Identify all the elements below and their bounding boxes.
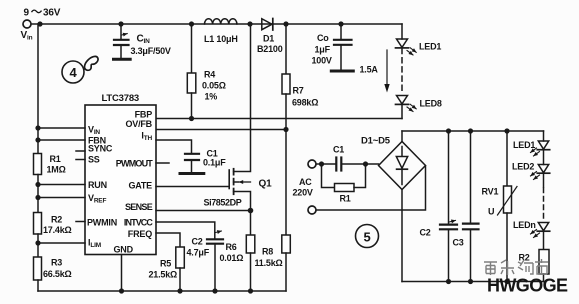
svg-text:SENSE: SENSE xyxy=(125,202,153,212)
svg-text:HWGOGE: HWGOGE xyxy=(487,276,568,296)
svg-text:Co: Co xyxy=(317,33,329,43)
svg-text:Vin: Vin xyxy=(21,30,33,42)
svg-text:AC: AC xyxy=(299,177,312,187)
wire dashed LED chain xyxy=(543,174,545,187)
svg-text:SS: SS xyxy=(88,155,100,165)
bridge rectifier D1~D5 xyxy=(379,142,426,190)
svg-text:R7: R7 xyxy=(293,86,304,96)
node Co tap xyxy=(338,21,343,26)
svg-text:B2100: B2100 xyxy=(257,44,283,54)
svg-text:LED1: LED1 xyxy=(513,140,535,150)
svg-text:9: 9 xyxy=(24,8,30,19)
svg-text:0.01Ω: 0.01Ω xyxy=(220,253,244,263)
wire bridge top to rail xyxy=(401,131,403,142)
wire left rail upper xyxy=(37,24,39,154)
pin PWMOUT stub xyxy=(156,162,169,164)
transistor Q1 MOSFET xyxy=(229,24,250,211)
svg-text:0.1μF: 0.1μF xyxy=(203,158,226,168)
svg-text:LTC3783: LTC3783 xyxy=(102,93,140,104)
wire FREQ net and resistor R5 xyxy=(156,233,184,291)
inductor L1 xyxy=(205,19,237,24)
wire bottom rail xyxy=(38,290,286,292)
pin SS stub xyxy=(76,159,85,161)
node Vin junction xyxy=(37,21,42,26)
svg-text:D1: D1 xyxy=(263,34,274,44)
diode D1 xyxy=(262,19,273,31)
resistor R2 (circuit5) xyxy=(539,250,549,282)
LED LED8 xyxy=(396,96,417,119)
circled 4 xyxy=(62,61,84,83)
svg-text:CIN: CIN xyxy=(137,34,151,46)
wire circuit5 bottom rail xyxy=(402,281,544,283)
wire AC bottom to bridge right xyxy=(316,166,425,210)
svg-text:5: 5 xyxy=(363,230,370,245)
capacitor C3 xyxy=(463,131,479,282)
node R4/L1 tap xyxy=(189,21,194,26)
svg-text:C2: C2 xyxy=(420,228,431,238)
svg-text:1.5A: 1.5A xyxy=(360,65,379,75)
LED LED1 (circuit5) xyxy=(531,131,550,156)
circled 5 xyxy=(356,225,379,248)
svg-text:36V: 36V xyxy=(43,8,61,19)
resistor R8 xyxy=(282,130,291,292)
svg-text:RUN: RUN xyxy=(88,180,107,190)
AC terminal top xyxy=(308,160,316,168)
svg-text:GATE: GATE xyxy=(128,181,152,191)
wire RUN pin to rail xyxy=(38,184,85,186)
ink scribble xyxy=(85,56,99,70)
svg-text:FREQ: FREQ xyxy=(128,229,152,239)
svg-text:LEDn: LEDn xyxy=(513,220,536,230)
svg-text:GND: GND xyxy=(114,245,134,255)
LED LED2 xyxy=(531,150,550,179)
wire dashed LED string xyxy=(401,49,403,94)
svg-text:PWMIN: PWMIN xyxy=(87,218,117,228)
resistor R1 xyxy=(34,154,42,213)
wire VIN pin to rail xyxy=(38,127,85,129)
wire FBP net xyxy=(156,118,402,120)
svg-text:U: U xyxy=(488,207,494,217)
pin ITH wire and capacitor C1 xyxy=(156,140,204,174)
svg-text:R4: R4 xyxy=(204,70,215,80)
svg-text:SYNC: SYNC xyxy=(88,144,113,154)
AC terminal bottom xyxy=(308,206,316,214)
resistor R2 xyxy=(34,213,42,258)
svg-text:R3: R3 xyxy=(51,258,62,268)
varistor RV1 xyxy=(498,131,518,282)
svg-text:1MΩ: 1MΩ xyxy=(47,165,66,175)
resistor R7 xyxy=(282,24,290,130)
wire GND pin drop xyxy=(121,255,123,292)
wire GATE net xyxy=(156,186,229,188)
wire bridge bottom to rail xyxy=(401,190,403,282)
LED LEDn xyxy=(531,223,550,250)
svg-text:3.3μF/50V: 3.3μF/50V xyxy=(131,46,171,56)
arrow 1.5A current xyxy=(386,50,388,88)
wire VREF pin to rail xyxy=(38,197,85,199)
svg-text:INTVCC: INTVCC xyxy=(124,218,154,228)
pin SYNC stub xyxy=(76,150,85,152)
op-amp U1 LTC3783 box xyxy=(85,105,156,255)
capacitor C2 (circuit5) xyxy=(440,131,457,282)
resistor R3 xyxy=(34,257,42,291)
svg-text:220V: 220V xyxy=(293,188,313,198)
svg-text:FBP: FBP xyxy=(135,110,153,120)
svg-text:LED1: LED1 xyxy=(419,41,441,51)
svg-text:D1~D5: D1~D5 xyxy=(361,136,391,147)
svg-text:21.5kΩ: 21.5kΩ xyxy=(149,270,178,280)
svg-text:R8: R8 xyxy=(262,247,273,257)
wire FBN pin to rail xyxy=(38,139,85,141)
svg-text:4: 4 xyxy=(69,65,77,80)
node C1/R1 right xyxy=(363,161,368,166)
LED LED1 (output string) xyxy=(396,24,417,55)
wire INTVCC net and capacitor C2 xyxy=(156,222,223,291)
svg-text:0.05Ω: 0.05Ω xyxy=(202,81,226,91)
resistor R4 xyxy=(187,24,196,119)
svg-text:R1: R1 xyxy=(340,194,351,204)
svg-text:R1: R1 xyxy=(50,154,61,164)
svg-text:LED2: LED2 xyxy=(512,162,534,172)
svg-text:C1: C1 xyxy=(333,145,344,155)
wire ILIM pin to rail xyxy=(38,242,85,244)
svg-text:RV1: RV1 xyxy=(482,187,499,197)
node D1 anode / Q1 drain tap xyxy=(247,21,252,26)
node CIN tap xyxy=(118,21,123,26)
svg-text:17.4kΩ: 17.4kΩ xyxy=(43,225,72,235)
svg-text:C2: C2 xyxy=(192,237,203,247)
watermark hardware dog bro xyxy=(484,259,548,275)
svg-text:R2: R2 xyxy=(51,215,62,225)
svg-text:C3: C3 xyxy=(453,238,464,248)
svg-text:R5: R5 xyxy=(160,259,171,269)
svg-text:Q1: Q1 xyxy=(259,179,273,190)
svg-text:1μF: 1μF xyxy=(315,45,331,55)
node D1 cathode / R7 tap xyxy=(283,21,288,26)
svg-text:66.5kΩ: 66.5kΩ xyxy=(43,269,72,279)
node C1/R1 left xyxy=(319,161,324,166)
input terminal Vin xyxy=(23,20,31,28)
svg-text:1%: 1% xyxy=(205,92,218,102)
svg-text:R6: R6 xyxy=(226,242,237,252)
svg-text:100V: 100V xyxy=(312,56,332,66)
pin PWMIN stub xyxy=(76,221,85,223)
wire OV/FB net xyxy=(156,129,286,131)
wire top rail xyxy=(31,23,402,25)
svg-text:Si7852DP: Si7852DP xyxy=(204,198,242,208)
capacitor CIN xyxy=(114,24,131,59)
svg-text:698kΩ: 698kΩ xyxy=(292,98,318,108)
svg-text:11.5kΩ: 11.5kΩ xyxy=(255,258,283,268)
svg-text:LED8: LED8 xyxy=(420,98,442,108)
svg-text:OV/FB: OV/FB xyxy=(125,119,152,129)
resistor R1 (parallel) xyxy=(322,164,366,192)
svg-text:4.7μF: 4.7μF xyxy=(187,248,210,258)
wire SENSE net xyxy=(156,210,251,212)
capacitor C1 (series) xyxy=(316,158,378,171)
wire circuit5 top rail xyxy=(402,130,544,132)
capacitor Co xyxy=(331,24,353,71)
resistor R6 xyxy=(246,211,255,292)
svg-text:L1 10μH: L1 10μH xyxy=(204,34,238,44)
svg-text:PWMOUT: PWMOUT xyxy=(116,159,153,169)
